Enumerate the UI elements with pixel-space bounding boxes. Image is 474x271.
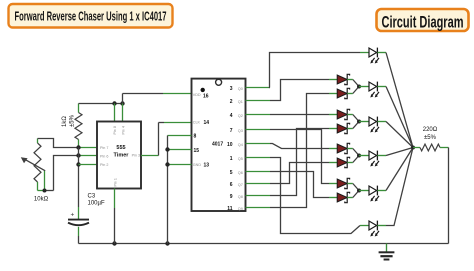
svg-text:Timer: Timer [114,153,130,159]
svg-text:7: 7 [230,128,233,134]
svg-text:Pin 4: Pin 4 [122,126,126,134]
svg-text:9: 9 [230,194,233,200]
svg-text:11: 11 [227,206,233,212]
svg-text:Q9: Q9 [238,207,243,211]
svg-text:Q4: Q4 [238,143,243,147]
svg-text:13: 13 [204,162,210,168]
svg-text:Q5: Q5 [238,157,243,161]
svg-text:±5%: ±5% [70,114,76,127]
svg-text:Q7: Q7 [238,183,243,187]
svg-text:Q8: Q8 [238,195,243,199]
svg-text:2: 2 [230,99,233,105]
svg-text:1kΩ: 1kΩ [62,116,68,127]
svg-text:+: + [71,212,75,219]
svg-text:Q0: Q0 [238,87,243,91]
svg-text:VDD: VDD [193,93,201,97]
svg-text:Pin 2: Pin 2 [100,163,108,167]
svg-text:Pin 8: Pin 8 [113,126,117,134]
svg-text:Q1: Q1 [238,100,243,104]
svg-text:GND: GND [193,163,202,167]
svg-text:100µF: 100µF [88,201,105,207]
svg-text:4017: 4017 [212,141,223,147]
svg-text:Q2: Q2 [238,114,243,118]
svg-text:8: 8 [194,133,197,139]
svg-text:Pin 7: Pin 7 [100,146,108,150]
svg-text:3: 3 [230,86,233,92]
svg-text:220Ω: 220Ω [423,127,438,133]
svg-text:5: 5 [230,170,233,176]
svg-text:C3: C3 [88,194,96,200]
svg-text:Q6: Q6 [238,171,243,175]
svg-text:4: 4 [230,113,233,119]
svg-text:1: 1 [230,156,233,162]
svg-text:6: 6 [230,182,233,188]
svg-text:Circuit Diagram: Circuit Diagram [382,12,464,31]
svg-text:Q3: Q3 [238,129,243,133]
svg-text:Pin 3: Pin 3 [132,153,140,157]
svg-text:15: 15 [194,148,200,154]
svg-text:10: 10 [227,142,233,148]
svg-text:±5%: ±5% [424,135,437,141]
svg-text:10kΩ: 10kΩ [34,197,49,203]
svg-text:555: 555 [116,145,125,151]
svg-text:CLK: CLK [193,121,201,125]
svg-text:Pin 1: Pin 1 [113,178,117,186]
svg-text:16: 16 [203,93,209,99]
svg-text:Forward Reverse Chaser Using 1: Forward Reverse Chaser Using 1 x IC4017 [15,8,167,23]
svg-text:14: 14 [204,120,210,126]
svg-text:Pin 6: Pin 6 [100,155,108,159]
